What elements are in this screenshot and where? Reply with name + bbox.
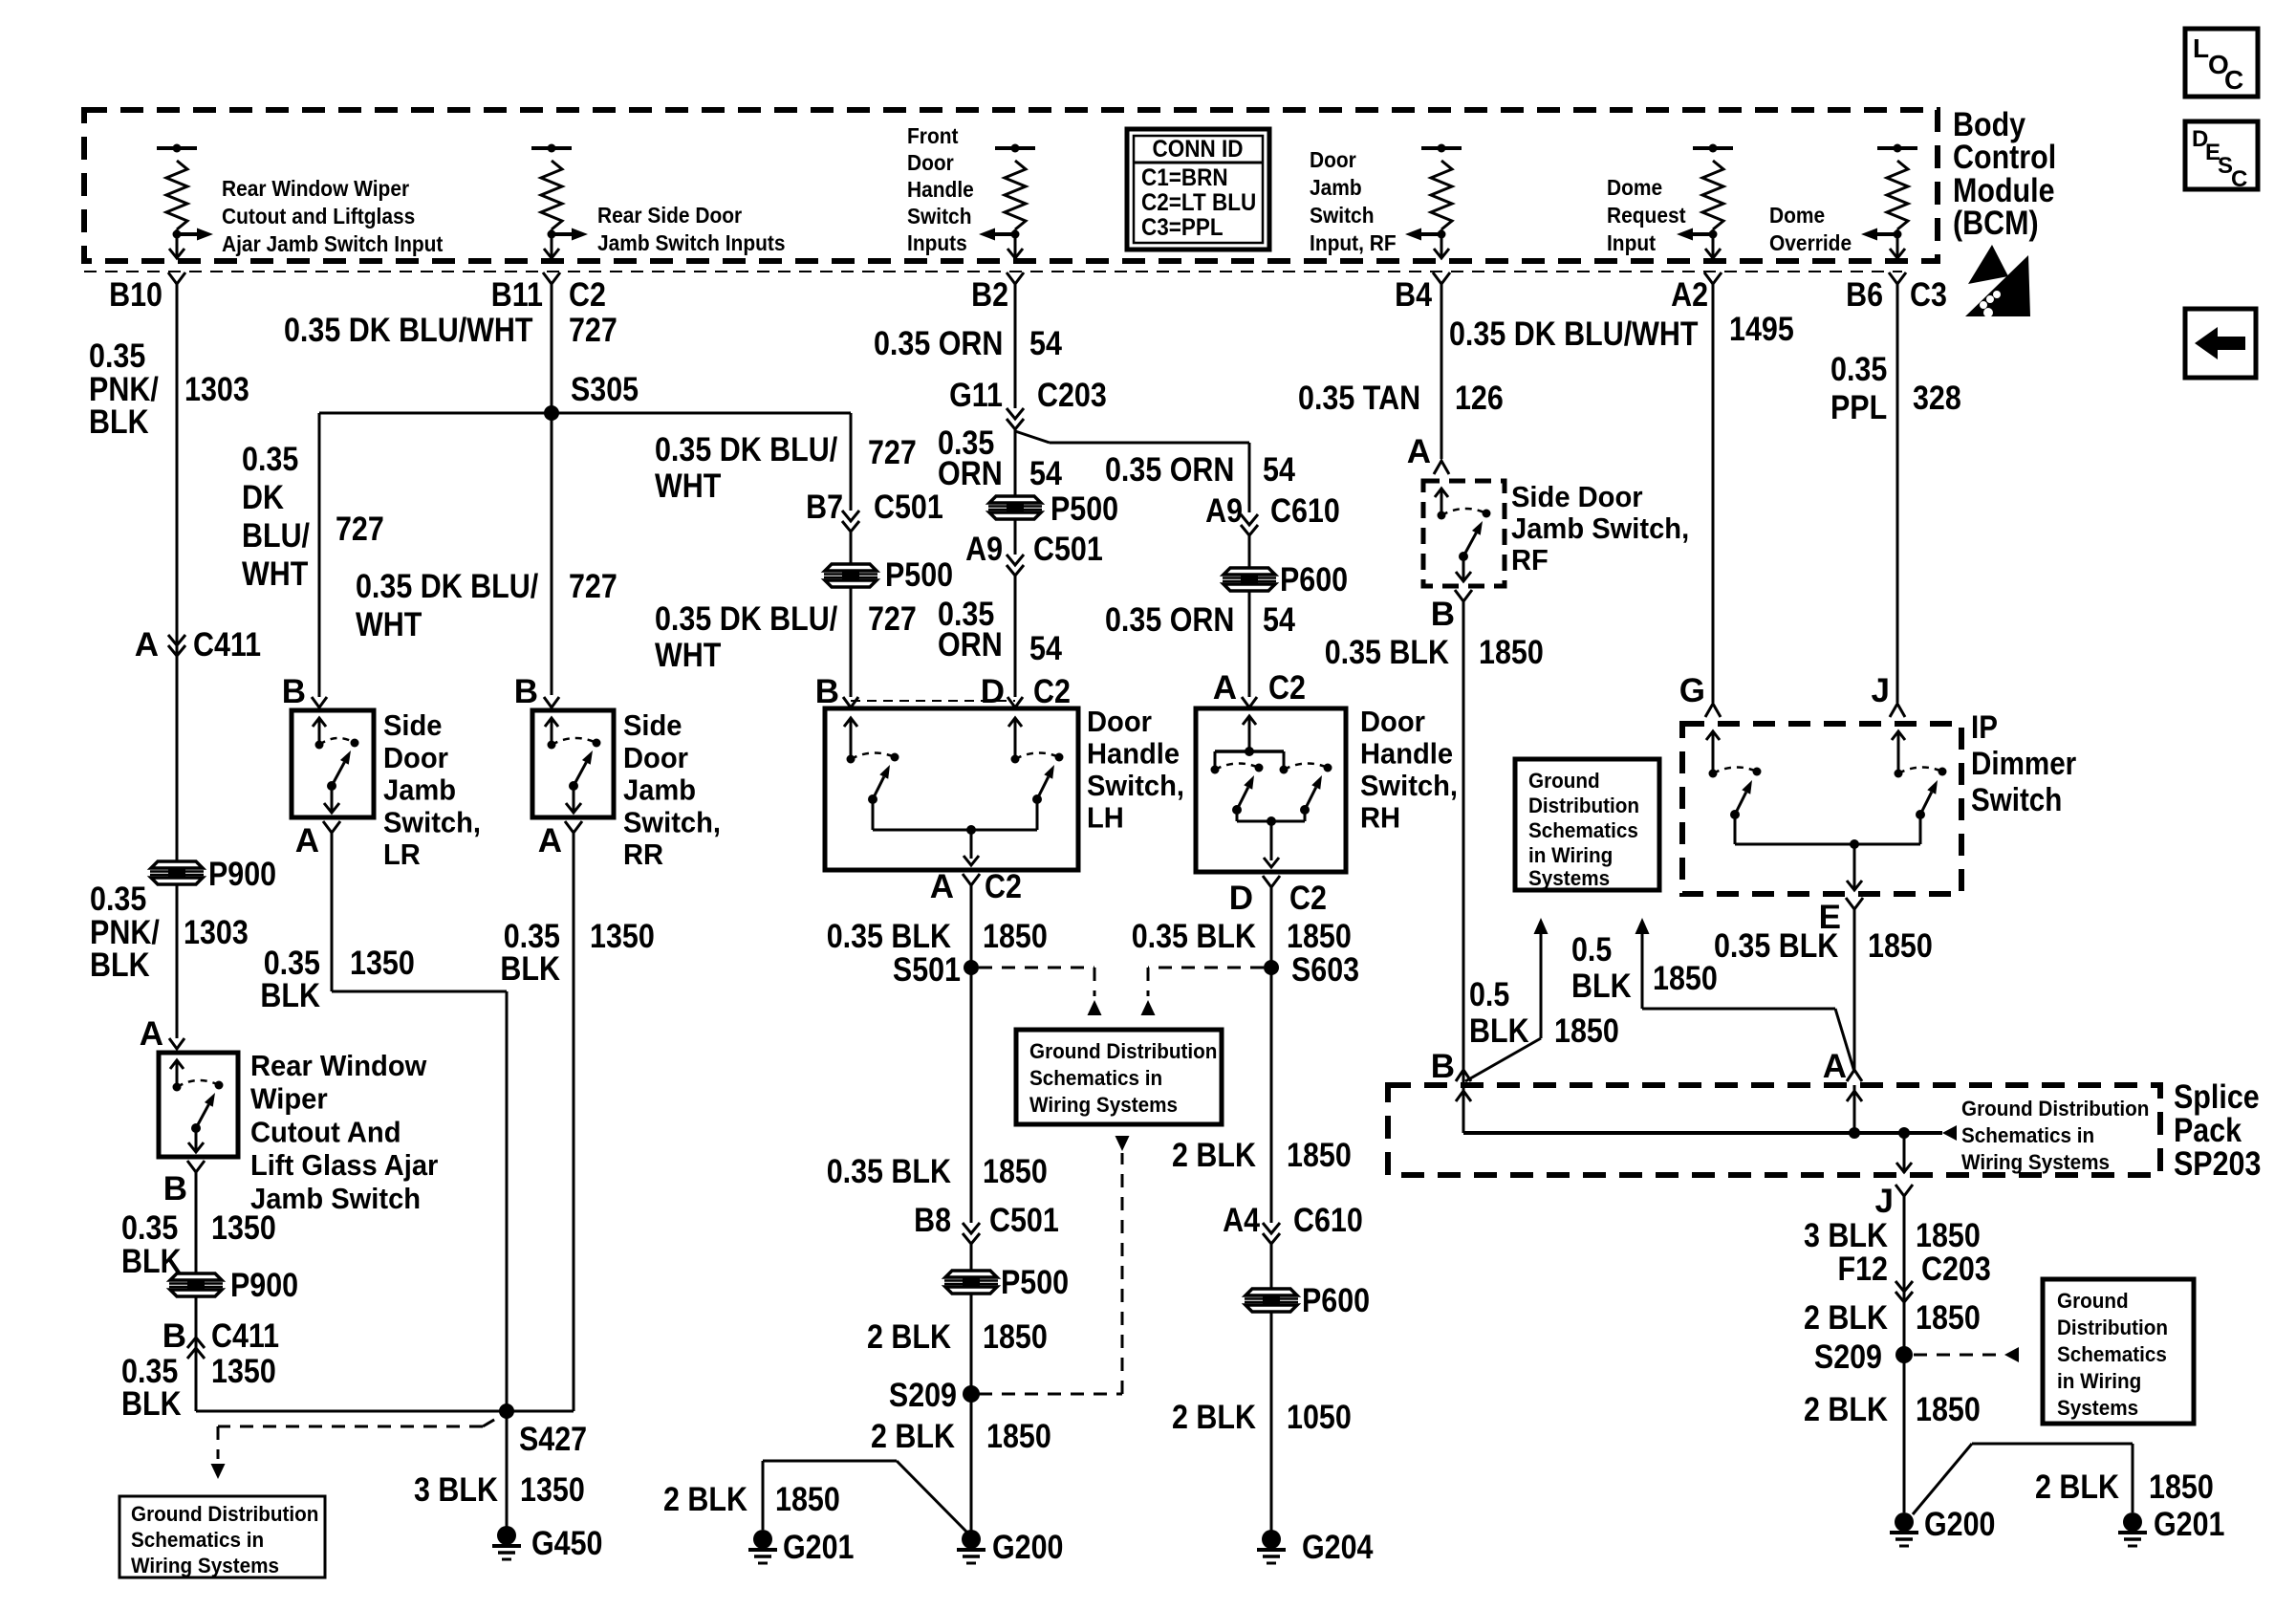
- resistor: Door Jamb Switch input RF (pin B4): [1421, 146, 1462, 150]
- dashed reference from S427 to bottom-left ground box: [218, 1425, 483, 1428]
- dashed reference from S209 right to ground box: [1914, 1354, 2003, 1357]
- svg-text:727: 727: [868, 600, 917, 638]
- svg-text:WHT: WHT: [655, 637, 721, 674]
- svg-text:A: A: [295, 822, 319, 859]
- wire below P900: [195, 1296, 198, 1411]
- svg-text:1350: 1350: [350, 945, 415, 982]
- Side Door Jamb Switch LR box: [292, 710, 374, 817]
- svg-text:2 BLK: 2 BLK: [871, 1418, 955, 1455]
- svg-text:2 BLK: 2 BLK: [1804, 1299, 1888, 1337]
- svg-text:Dimmer: Dimmer: [1971, 746, 2076, 782]
- dashed reference from S209 to mid ground box: [979, 1393, 1122, 1396]
- wire B10 down to P900: [176, 284, 179, 862]
- svg-text:1303: 1303: [184, 371, 249, 408]
- LOC reference box: [2185, 29, 2258, 97]
- svg-text:0.35: 0.35: [121, 1209, 178, 1247]
- svg-text:C2: C2: [1033, 673, 1071, 710]
- wire B4 down to RF jamb switch: [1433, 272, 1450, 284]
- svg-text:(BCM): (BCM): [1953, 205, 2039, 242]
- svg-text:0.35 DK BLU/WHT: 0.35 DK BLU/WHT: [1449, 315, 1699, 353]
- svg-text:Schematics: Schematics: [2057, 1342, 2167, 1366]
- svg-text:G201: G201: [783, 1529, 855, 1566]
- svg-text:B: B: [1431, 596, 1455, 633]
- resistor: Dome Request input (pin A2): [1693, 146, 1733, 150]
- svg-text:0.35 ORN: 0.35 ORN: [1105, 601, 1234, 639]
- svg-text:1050: 1050: [1287, 1399, 1352, 1436]
- svg-text:C: C: [2231, 166, 2247, 192]
- 0.5 BLK 1850 wire (right, to splice pack pin A): [1635, 918, 1650, 934]
- ground G450: [497, 1526, 516, 1545]
- svg-text:1850: 1850: [1653, 960, 1718, 997]
- 0.5 BLK 1850 wire (left, to splice pack pin B): [1534, 918, 1549, 934]
- svg-text:C411: C411: [193, 626, 261, 664]
- svg-text:Schematics in: Schematics in: [1961, 1123, 2094, 1147]
- svg-text:C203: C203: [1037, 377, 1107, 414]
- Ground Distribution Schematics reference box (right): [1515, 759, 1659, 890]
- svg-text:G204: G204: [1302, 1529, 1374, 1566]
- wire S305 right branch to LH door handle switch: [552, 412, 851, 415]
- wire RH pin D down: [1270, 887, 1273, 1223]
- wire LH pin A down: [970, 885, 973, 1223]
- svg-text:Wiring Systems: Wiring Systems: [1029, 1093, 1178, 1117]
- svg-text:P900: P900: [230, 1267, 298, 1304]
- splice S603: [1264, 960, 1279, 975]
- ground G204: [1262, 1530, 1281, 1549]
- svg-text:Door: Door: [623, 741, 688, 774]
- svg-text:LR: LR: [383, 838, 421, 871]
- svg-text:Dome: Dome: [1769, 203, 1825, 228]
- svg-text:B10: B10: [109, 276, 162, 314]
- splice S305: [544, 405, 559, 421]
- connector dashed line between pins B and D: [851, 700, 1015, 702]
- svg-text:BLK: BLK: [1571, 968, 1632, 1005]
- svg-text:Jamb: Jamb: [1310, 175, 1362, 200]
- svg-text:Rear Window: Rear Window: [250, 1049, 427, 1082]
- svg-text:0.35 BLK: 0.35 BLK: [827, 918, 951, 955]
- svg-text:1850: 1850: [1287, 918, 1352, 955]
- svg-text:RF: RF: [1511, 543, 1549, 577]
- svg-text:B: B: [815, 673, 839, 710]
- svg-text:Schematics: Schematics: [1528, 818, 1638, 842]
- wire LR A to S427 bus: [331, 833, 334, 991]
- svg-text:P600: P600: [1302, 1282, 1370, 1319]
- svg-text:A: A: [135, 626, 159, 664]
- svg-text:Switch: Switch: [907, 204, 972, 228]
- svg-text:F12: F12: [1838, 1251, 1889, 1288]
- svg-text:2 BLK: 2 BLK: [867, 1318, 951, 1356]
- wire to RH switch pin A: [1248, 591, 1251, 697]
- svg-text:2 BLK: 2 BLK: [1172, 1399, 1256, 1436]
- svg-text:1303: 1303: [184, 914, 249, 951]
- svg-text:Jamb: Jamb: [383, 773, 456, 807]
- svg-text:S501: S501: [893, 951, 961, 989]
- dashed reference from S603 to ground distribution box: [1148, 967, 1264, 969]
- svg-text:A: A: [1823, 1048, 1847, 1085]
- svg-text:Input: Input: [1607, 230, 1656, 255]
- svg-text:Ground: Ground: [2057, 1289, 2129, 1313]
- svg-text:C2: C2: [985, 868, 1022, 905]
- svg-text:3 BLK: 3 BLK: [1804, 1217, 1888, 1254]
- svg-text:C501: C501: [989, 1202, 1059, 1239]
- grommet P500 (B7 branch): [824, 564, 877, 587]
- svg-text:C2=LT BLU: C2=LT BLU: [1141, 189, 1256, 216]
- svg-text:Systems: Systems: [2057, 1396, 2138, 1420]
- svg-text:0.35 ORN: 0.35 ORN: [874, 325, 1003, 362]
- svg-text:727: 727: [569, 568, 617, 605]
- svg-text:Wiper: Wiper: [250, 1082, 328, 1116]
- svg-text:B: B: [282, 673, 306, 710]
- wire P900 down to rear wiper switch: [176, 884, 179, 1038]
- dimmer internal bus to pin E: [1735, 843, 1920, 846]
- svg-text:S305: S305: [571, 371, 639, 408]
- svg-text:J: J: [1872, 672, 1890, 709]
- wire below C203: [1014, 429, 1017, 496]
- svg-text:328: 328: [1913, 380, 1961, 417]
- resistor: Dome Override input (pin B6): [1877, 146, 1917, 150]
- svg-text:Switch,: Switch,: [1087, 769, 1184, 802]
- svg-text:Side: Side: [383, 708, 443, 742]
- svg-text:1850: 1850: [983, 1318, 1048, 1356]
- svg-text:B6: B6: [1846, 276, 1883, 314]
- svg-text:G200: G200: [992, 1529, 1064, 1566]
- svg-text:1850: 1850: [1868, 927, 1933, 965]
- wire B6 down to dimmer pin J: [1889, 272, 1906, 284]
- splice S501: [964, 960, 979, 975]
- svg-text:1350: 1350: [211, 1209, 276, 1247]
- svg-text:Cutout and Liftglass: Cutout and Liftglass: [222, 204, 415, 228]
- wire B11 down to S305: [543, 272, 560, 284]
- svg-text:C2: C2: [1268, 669, 1306, 707]
- ground G201 (right): [2123, 1512, 2142, 1532]
- svg-text:Wiring Systems: Wiring Systems: [131, 1554, 279, 1577]
- svg-text:727: 727: [868, 434, 917, 471]
- wire E down to splice pack pin A: [1853, 909, 1856, 1072]
- svg-text:A9: A9: [1205, 492, 1243, 530]
- svg-text:1350: 1350: [211, 1353, 276, 1390]
- Side Door Jamb Switch RF dashed box: [1423, 481, 1505, 586]
- svg-text:Distribution: Distribution: [2057, 1316, 2168, 1339]
- grommet P500 (lower): [944, 1271, 998, 1294]
- pin B of rear wiper switch: [187, 1161, 205, 1172]
- svg-text:WHT: WHT: [356, 606, 422, 643]
- svg-text:0.35 ORN: 0.35 ORN: [1105, 451, 1234, 489]
- svg-text:0.35: 0.35: [242, 441, 298, 478]
- svg-text:A: A: [930, 868, 954, 905]
- junction diagonal to RH branch: [1015, 431, 1050, 443]
- svg-text:S427: S427: [519, 1421, 587, 1458]
- dashed reference from S501 to ground distribution box: [979, 967, 1094, 969]
- back-arrow box: [2185, 309, 2256, 378]
- svg-text:G200: G200: [1924, 1506, 1996, 1543]
- svg-text:Ground: Ground: [1528, 769, 1600, 793]
- wire B down: [195, 1172, 198, 1273]
- DESC reference box: [2185, 121, 2258, 189]
- wire to LH switch pin B: [850, 587, 853, 697]
- svg-text:D: D: [1229, 880, 1253, 917]
- splice pack internal bus: [1463, 1131, 1942, 1135]
- svg-text:3 BLK: 3 BLK: [414, 1471, 498, 1509]
- svg-text:1850: 1850: [1916, 1391, 1981, 1428]
- svg-text:Systems: Systems: [1528, 866, 1610, 890]
- wire RF B down to splice pack: [1462, 601, 1465, 1083]
- wire B2 down: [1007, 272, 1024, 284]
- svg-text:in Wiring: in Wiring: [2057, 1369, 2141, 1393]
- pin connector Y at B10: [168, 272, 185, 284]
- svg-text:Handle: Handle: [1087, 737, 1180, 771]
- svg-text:126: 126: [1455, 380, 1504, 417]
- Body Control Module (BCM) dashed outline: [84, 110, 1938, 261]
- svg-text:CONN ID: CONN ID: [1153, 136, 1244, 163]
- svg-text:1350: 1350: [520, 1471, 585, 1509]
- svg-text:BLK: BLK: [90, 946, 150, 984]
- connector C501 pin A9: [1014, 519, 1017, 555]
- svg-text:C3: C3: [1910, 276, 1947, 314]
- svg-text:S603: S603: [1291, 951, 1359, 989]
- svg-text:Request: Request: [1607, 203, 1686, 228]
- svg-text:ORN: ORN: [938, 455, 1003, 492]
- ground G200 (center): [962, 1530, 981, 1549]
- Rear Window Wiper Cutout And Lift Glass Ajar Jamb Switch box: [159, 1053, 238, 1157]
- svg-text:G11: G11: [949, 377, 1003, 414]
- svg-text:A: A: [1407, 433, 1431, 470]
- svg-text:B8: B8: [914, 1202, 951, 1239]
- svg-text:1850: 1850: [2149, 1469, 2214, 1506]
- svg-text:Dome: Dome: [1607, 175, 1662, 200]
- svg-text:0.35: 0.35: [89, 337, 145, 375]
- svg-text:0.35 DK BLU/: 0.35 DK BLU/: [655, 431, 837, 468]
- svg-text:0.35 DK BLU/: 0.35 DK BLU/: [356, 568, 538, 605]
- svg-text:A9: A9: [965, 531, 1003, 568]
- svg-text:1350: 1350: [590, 918, 655, 955]
- svg-text:B: B: [1431, 1048, 1455, 1085]
- svg-text:2 BLK: 2 BLK: [663, 1481, 747, 1518]
- grommet P600 (RH branch): [1223, 568, 1276, 591]
- svg-text:1850: 1850: [1554, 1012, 1619, 1050]
- svg-text:Ajar Jamb Switch Input: Ajar Jamb Switch Input: [222, 231, 444, 256]
- svg-text:B4: B4: [1395, 276, 1432, 314]
- svg-text:S209: S209: [1814, 1338, 1882, 1376]
- svg-text:B: B: [163, 1170, 187, 1207]
- svg-text:C203: C203: [1921, 1251, 1991, 1288]
- svg-text:54: 54: [1029, 325, 1062, 362]
- svg-text:B2: B2: [971, 276, 1008, 314]
- grommet P500 (LH column): [988, 496, 1042, 519]
- IP Dimmer Switch dashed box: [1682, 724, 1961, 894]
- svg-text:C501: C501: [1033, 531, 1103, 568]
- svg-text:Handle: Handle: [907, 177, 974, 202]
- svg-text:WHT: WHT: [655, 468, 721, 505]
- svg-text:BLK: BLK: [89, 403, 149, 441]
- svg-text:P900: P900: [208, 856, 276, 893]
- svg-text:RR: RR: [623, 838, 663, 871]
- pin A of LH door handle switch: [963, 874, 980, 885]
- svg-text:D: D: [981, 673, 1005, 710]
- svg-text:Ground Distribution: Ground Distribution: [1961, 1097, 2149, 1120]
- svg-text:1850: 1850: [1916, 1217, 1981, 1254]
- svg-text:DK: DK: [242, 479, 284, 516]
- svg-text:1850: 1850: [986, 1418, 1051, 1455]
- svg-text:1495: 1495: [1729, 311, 1794, 348]
- svg-text:Switch: Switch: [1971, 782, 2062, 818]
- svg-text:Ground Distribution: Ground Distribution: [1029, 1039, 1217, 1063]
- wire A2 down to dimmer pin G: [1704, 272, 1722, 284]
- svg-text:BLK: BLK: [500, 950, 560, 988]
- splice S209 (left): [963, 1385, 980, 1403]
- svg-text:1850: 1850: [983, 1153, 1048, 1190]
- svg-text:2 BLK: 2 BLK: [1804, 1391, 1888, 1428]
- svg-text:2 BLK: 2 BLK: [2035, 1469, 2119, 1506]
- svg-text:A: A: [1213, 669, 1237, 707]
- svg-text:Schematics in: Schematics in: [131, 1528, 264, 1552]
- svg-text:Rear Side Door: Rear Side Door: [597, 203, 742, 228]
- svg-text:0.35: 0.35: [90, 881, 146, 918]
- svg-text:Door: Door: [1310, 147, 1356, 172]
- svg-text:BLU/: BLU/: [242, 517, 310, 555]
- svg-text:Side: Side: [623, 708, 682, 742]
- svg-text:54: 54: [1263, 451, 1295, 489]
- svg-text:Wiring Systems: Wiring Systems: [1961, 1150, 2110, 1174]
- svg-text:1850: 1850: [1287, 1137, 1352, 1174]
- svg-text:A: A: [140, 1015, 163, 1053]
- svg-text:0.35 BLK: 0.35 BLK: [1132, 918, 1256, 955]
- pin A of RR jamb switch: [565, 821, 582, 833]
- svg-text:1850: 1850: [1479, 634, 1544, 671]
- pin A of LR jamb switch: [323, 821, 340, 833]
- svg-text:G: G: [1679, 672, 1705, 709]
- svg-text:Switch,: Switch,: [623, 805, 721, 838]
- svg-text:IP: IP: [1971, 709, 1998, 746]
- svg-text:C411: C411: [211, 1317, 279, 1355]
- svg-text:1850: 1850: [1916, 1299, 1981, 1337]
- svg-text:LH: LH: [1087, 801, 1124, 835]
- svg-text:Ground Distribution: Ground Distribution: [131, 1502, 318, 1526]
- svg-text:G201: G201: [2154, 1506, 2225, 1543]
- dimmer switch right mechanism (pin J): [1897, 732, 1900, 773]
- dimmer switch left mechanism (pin G): [1712, 732, 1715, 773]
- svg-text:0.35 BLK: 0.35 BLK: [1714, 927, 1838, 965]
- svg-text:B: B: [514, 673, 538, 710]
- svg-text:C: C: [2224, 65, 2243, 95]
- svg-text:Control: Control: [1953, 139, 2056, 176]
- ESD sensitivity symbol: [1968, 245, 2008, 284]
- svg-text:Rear Window Wiper: Rear Window Wiper: [222, 176, 409, 201]
- svg-text:C2: C2: [569, 276, 606, 314]
- reference arrow to ground distribution text: [1942, 1125, 1957, 1141]
- svg-text:ORN: ORN: [938, 626, 1003, 664]
- grommet P900 (upper): [150, 861, 204, 884]
- svg-text:A4: A4: [1223, 1202, 1260, 1239]
- svg-text:S209: S209: [889, 1377, 957, 1414]
- svg-text:B: B: [162, 1317, 186, 1355]
- svg-text:WHT: WHT: [242, 555, 308, 593]
- svg-text:2 BLK: 2 BLK: [1172, 1137, 1256, 1174]
- Ground Distribution Schematics reference box (bottom left): [119, 1496, 325, 1577]
- svg-text:P500: P500: [1001, 1264, 1069, 1301]
- wire G201 up and over to G200: [762, 1461, 765, 1530]
- svg-text:A: A: [538, 822, 562, 859]
- svg-text:Override: Override: [1769, 230, 1852, 255]
- pin B of RF jamb switch: [1455, 590, 1472, 601]
- grommet P600 (lower): [1245, 1289, 1298, 1312]
- pin J exit of splice pack: [1903, 1133, 1906, 1173]
- svg-text:BLK: BLK: [260, 977, 320, 1014]
- svg-text:BLK: BLK: [1469, 1012, 1529, 1050]
- svg-text:Jamb: Jamb: [623, 773, 696, 807]
- svg-text:Door: Door: [383, 741, 448, 774]
- svg-text:BLK: BLK: [121, 1385, 182, 1423]
- wire RR A down to S427 bus: [573, 833, 575, 1411]
- svg-text:727: 727: [569, 312, 617, 349]
- svg-text:54: 54: [1029, 630, 1062, 667]
- svg-text:0.5: 0.5: [1469, 976, 1509, 1013]
- svg-text:B7: B7: [806, 489, 843, 526]
- svg-text:0.35: 0.35: [1830, 351, 1887, 388]
- svg-text:L: L: [2193, 33, 2209, 63]
- svg-text:J: J: [1875, 1183, 1894, 1220]
- resistor: Rear Window Wiper Cutout input (pin B10): [157, 146, 197, 150]
- svg-text:Jamb Switch,: Jamb Switch,: [1511, 511, 1689, 545]
- svg-text:P500: P500: [885, 556, 953, 594]
- Ground Distribution Schematics reference box (bottom right): [2043, 1279, 2194, 1424]
- svg-text:54: 54: [1263, 601, 1295, 639]
- svg-text:C3=PPL: C3=PPL: [1141, 214, 1224, 241]
- ground G200 (right): [1895, 1512, 1914, 1532]
- svg-text:0.35 DK BLU/WHT: 0.35 DK BLU/WHT: [284, 312, 533, 349]
- svg-text:Pack: Pack: [2174, 1112, 2242, 1149]
- svg-text:P500: P500: [1051, 490, 1118, 528]
- svg-text:Distribution: Distribution: [1528, 794, 1639, 817]
- svg-text:0.35 BLK: 0.35 BLK: [1325, 634, 1449, 671]
- svg-text:A2: A2: [1671, 276, 1708, 314]
- svg-text:Input, RF: Input, RF: [1310, 230, 1397, 255]
- pin E of dimmer switch: [1846, 898, 1863, 909]
- Door Handle Switch RH box: [1196, 708, 1346, 872]
- resistor: Front Door Handle Switch input (pin B2): [995, 146, 1035, 150]
- wire to G201 (right): [1913, 1444, 1972, 1514]
- svg-text:C1=BRN: C1=BRN: [1141, 164, 1228, 191]
- svg-text:RH: RH: [1360, 801, 1400, 835]
- svg-text:PPL: PPL: [1830, 389, 1887, 426]
- splice S209 (right): [1895, 1346, 1913, 1363]
- wire S305 left branch to LR switch: [319, 412, 552, 415]
- svg-text:Lift Glass Ajar: Lift Glass Ajar: [250, 1148, 438, 1182]
- CONN ID legend box: [1127, 129, 1269, 250]
- svg-text:0.35 TAN: 0.35 TAN: [1298, 380, 1420, 417]
- svg-text:P600: P600: [1280, 561, 1348, 598]
- resistor: Rear Side Door Jamb Switch input (pin B11): [531, 146, 572, 150]
- svg-text:0.35 DK BLU/: 0.35 DK BLU/: [655, 600, 837, 638]
- Door Handle Switch LH box: [825, 708, 1078, 870]
- svg-text:0.5: 0.5: [1571, 931, 1612, 968]
- grommet P900 (lower): [169, 1273, 223, 1296]
- BCM connector face dashed line: [84, 271, 1902, 272]
- Splice Pack SP203 dashed box: [1388, 1085, 2160, 1175]
- svg-text:Door: Door: [1360, 705, 1425, 738]
- svg-text:1850: 1850: [775, 1481, 840, 1518]
- svg-text:54: 54: [1029, 455, 1062, 492]
- svg-text:Handle: Handle: [1360, 737, 1453, 771]
- svg-text:Switch,: Switch,: [1360, 769, 1458, 802]
- svg-text:Side Door: Side Door: [1511, 480, 1643, 513]
- svg-text:B11: B11: [491, 276, 543, 314]
- svg-text:C610: C610: [1270, 492, 1340, 530]
- Side Door Jamb Switch RR box: [532, 710, 614, 817]
- svg-text:Splice: Splice: [2174, 1078, 2260, 1116]
- svg-text:Door: Door: [907, 150, 954, 175]
- svg-text:Jamb Switch Inputs: Jamb Switch Inputs: [597, 230, 786, 255]
- svg-text:BLK: BLK: [121, 1243, 182, 1280]
- wire branch to RH door handle switch: [1050, 442, 1249, 445]
